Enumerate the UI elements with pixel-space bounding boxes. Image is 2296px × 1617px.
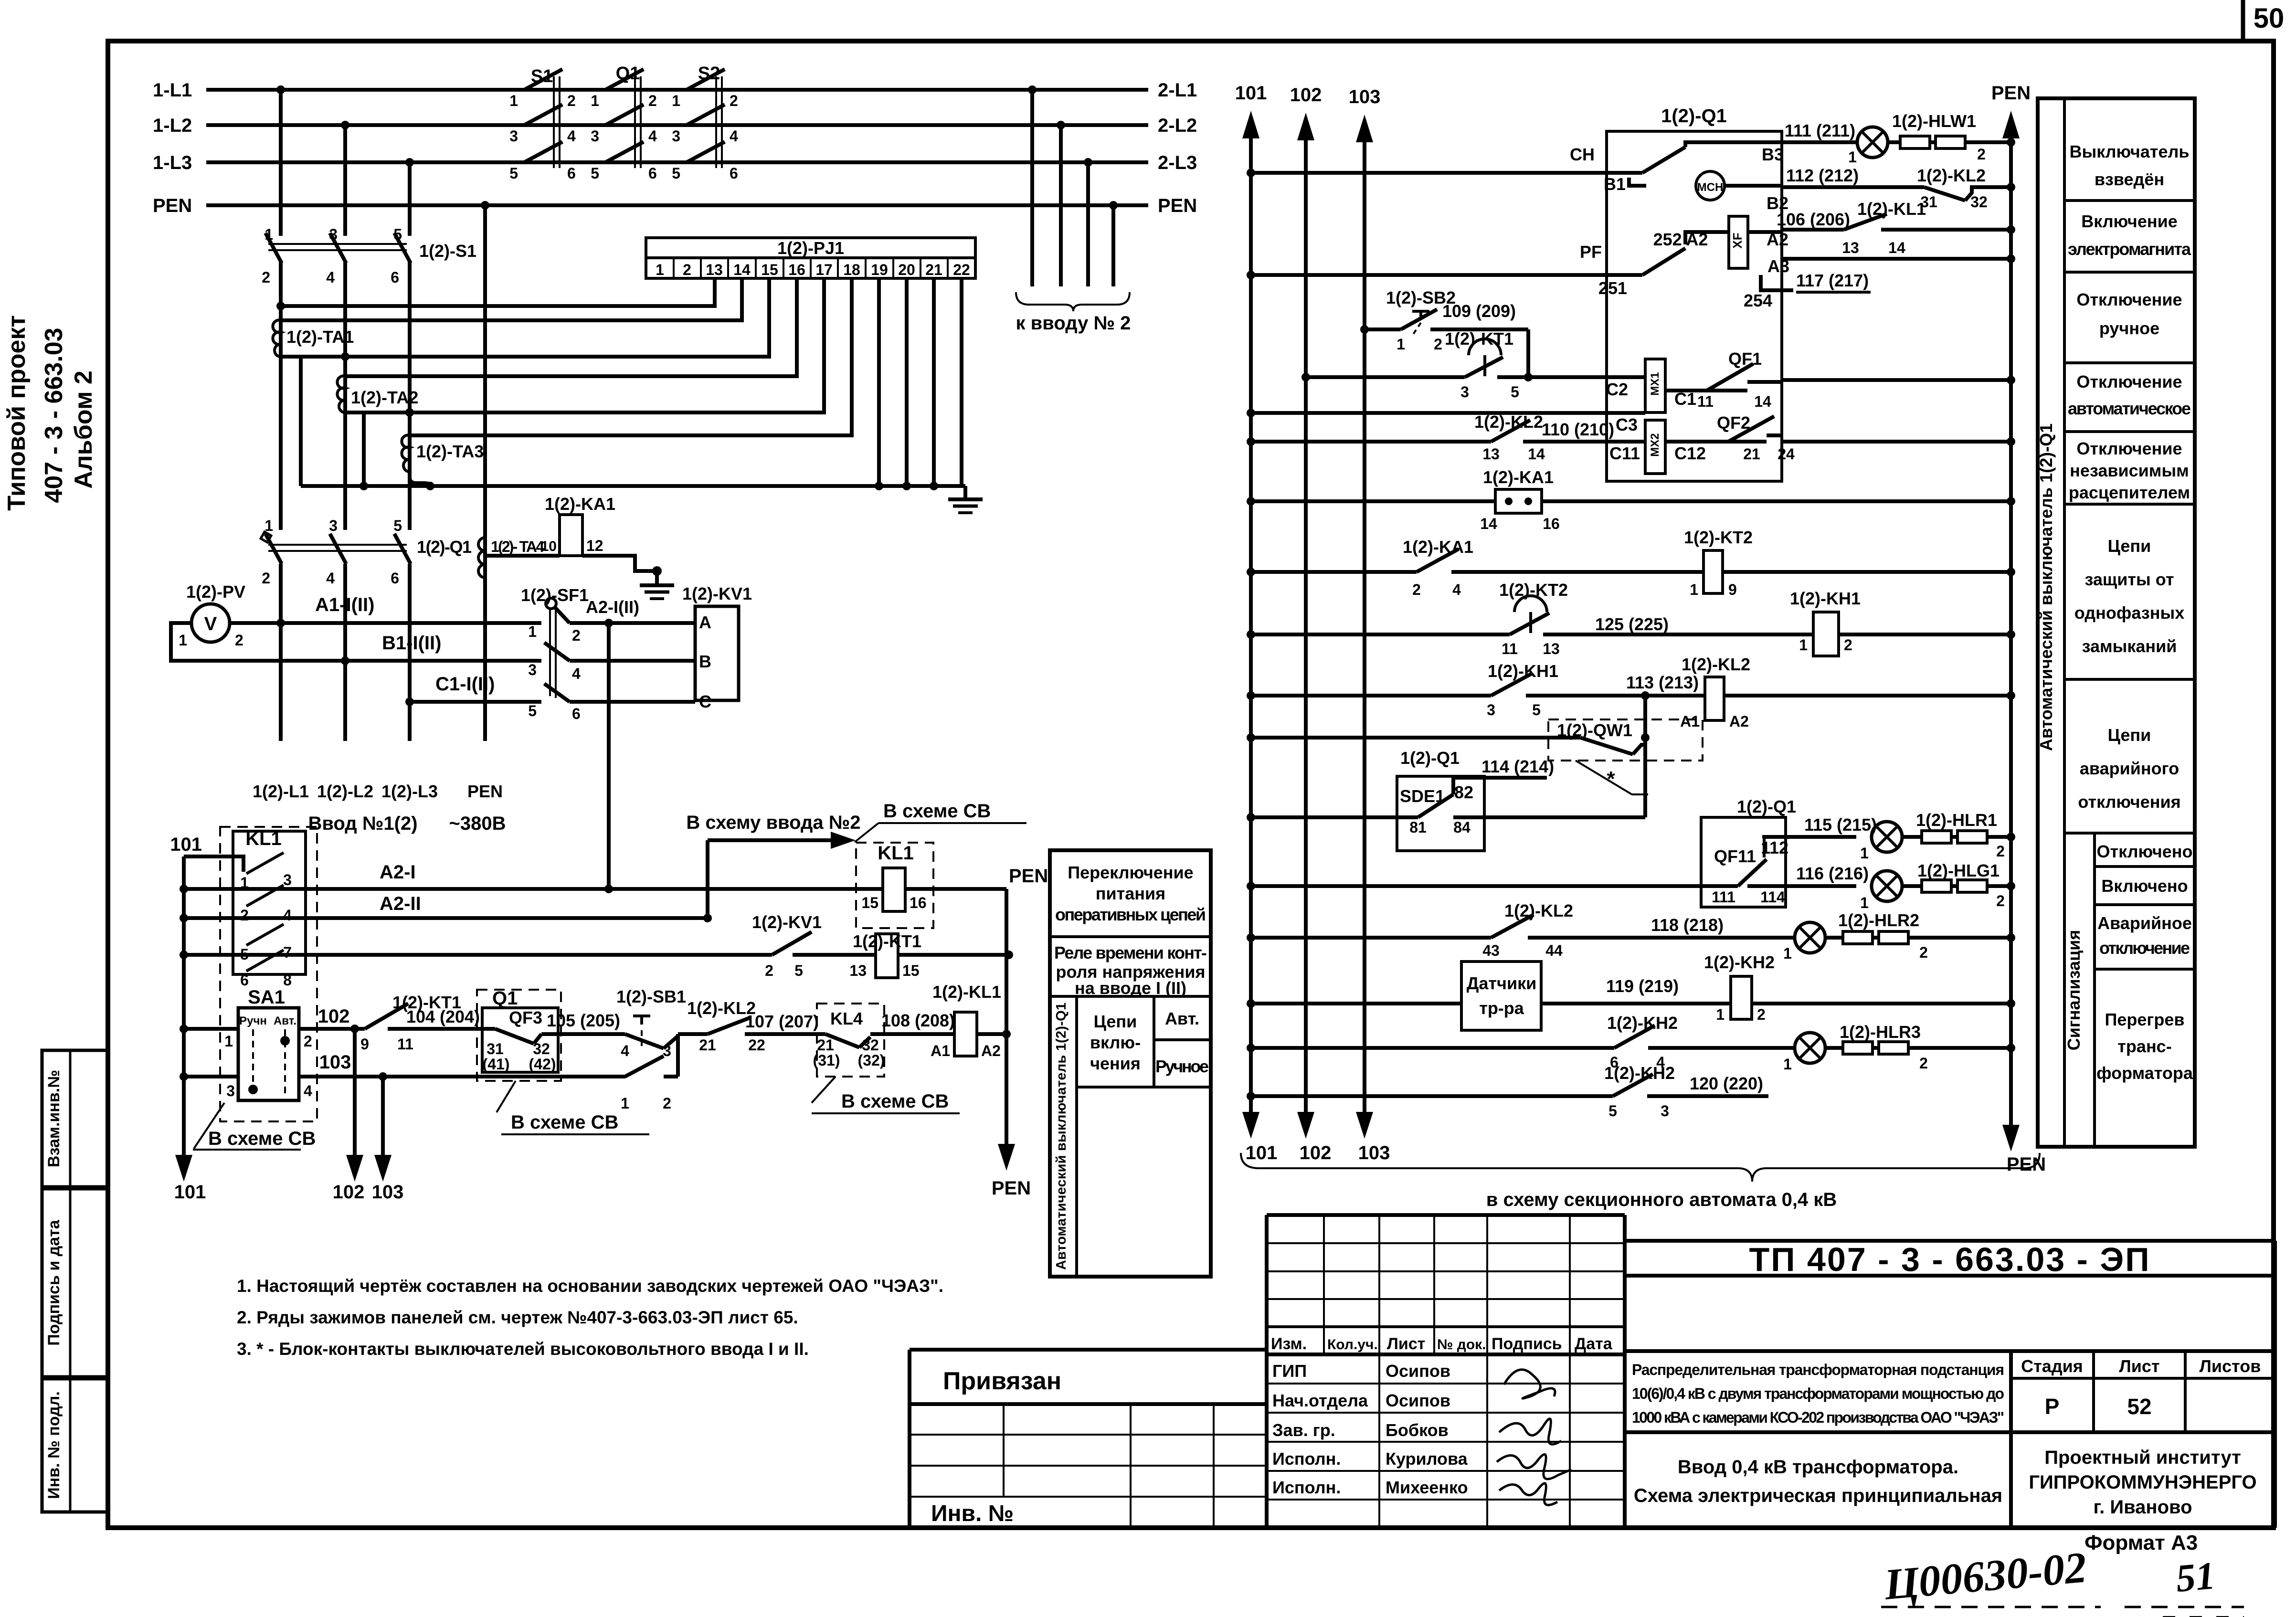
legend cell Авт [1154,1009,1211,1040]
svg-text:Нач.отдела: Нач.отдела [1272,1391,1368,1410]
svg-text:4: 4 [648,127,657,145]
svg-text:1(2)-KH2: 1(2)-KH2 [1704,952,1775,972]
svg-text:SA1: SA1 [248,987,285,1008]
svg-text:1(2)-PJ1: 1(2)-PJ1 [777,238,844,258]
wire TA1 secondary drop [299,357,303,486]
svg-text:6: 6 [567,165,576,182]
svg-text:1: 1 [1783,945,1792,962]
title ТП 407-3-663.03-ЭП [1625,1241,2275,1278]
svg-text:Курилова: Курилова [1386,1449,1468,1469]
contact 1(2)-KA1 [1247,537,1703,598]
wire to input 2 scheme [686,812,860,918]
row Включение электромагнита [2064,211,2195,272]
function table frame [2038,98,2195,1147]
svg-text:14: 14 [1528,445,1545,463]
svg-text:8: 8 [283,972,292,989]
legend box Переключение питания [1050,850,1211,1277]
svg-text:19: 19 [871,261,888,278]
svg-text:1: 1 [591,92,599,109]
svg-text:1(2)-KL2: 1(2)-KL2 [1474,412,1543,432]
svg-text:Отключение: Отключение [2076,290,2182,309]
svg-text:5: 5 [1511,383,1519,401]
svg-text:Реле времени конт-: Реле времени конт- [1054,943,1207,962]
svg-text:6: 6 [572,705,581,722]
svg-text:110 (210): 110 (210) [1542,420,1614,439]
svg-text:102: 102 [333,1182,365,1203]
svg-text:2: 2 [567,92,576,109]
svg-text:2: 2 [262,570,270,587]
svg-text:1(2)-KA1: 1(2)-KA1 [545,494,615,514]
auxiliary contact QF11 1(2)-Q1 [1247,797,1796,907]
svg-text:отключение: отключение [2099,938,2190,958]
wire PJ1-16 to TA2 [345,278,797,376]
rung MCH / 112(212) KL2 contact [1604,166,2015,213]
svg-text:114 (214): 114 (214) [1481,757,1554,776]
svg-text:112 (212): 112 (212) [1786,166,1859,185]
svg-text:Ручн: Ручн [239,1015,267,1027]
relay KA1 measuring [1247,467,2015,532]
row Включено [2095,876,2195,905]
svg-text:1-L2: 1-L2 [153,115,192,136]
wire 102 down arrow [333,1025,365,1203]
svg-text:51: 51 [2174,1554,2217,1600]
svg-text:XF: XF [1730,233,1745,248]
svg-text:20: 20 [898,261,915,278]
svg-text:111: 111 [1712,888,1735,906]
svg-text:Отключение: Отключение [2076,372,2182,391]
legend cell Цепи включения [1077,996,1211,1087]
svg-text:15: 15 [902,962,920,979]
svg-text:13: 13 [1543,640,1560,657]
CT 1(2)-TA3 [402,435,484,472]
rail PEN right [1991,83,2046,1175]
row Отключено [2095,842,2195,867]
wire drop 2-L1 to input 2 [1028,85,1037,286]
wire bus 101 lower-left [180,856,188,1081]
contact 1(2)-KL2 lamp HLR2 rung [1247,901,1795,959]
svg-text:1: 1 [1848,148,1857,166]
svg-text:50: 50 [2254,3,2285,34]
svg-text:1(2)-KL2: 1(2)-KL2 [1917,166,1986,185]
svg-text:A: A [699,613,711,632]
svg-text:1(2)-TA2: 1(2)-TA2 [351,388,418,407]
svg-text:В схему ввода №2: В схему ввода №2 [686,812,860,833]
row Отключение автоматическое [2064,372,2195,432]
svg-text:3: 3 [672,127,680,145]
svg-text:(42): (42) [529,1056,556,1073]
wire drop L3 [405,158,414,530]
svg-text:2. Ряды зажимов панелей см. ч: 2. Ряды зажимов панелей см. чертеж №407-… [237,1308,798,1327]
svg-text:2: 2 [648,92,657,109]
dashed enclosure KL1+SA1 [220,827,317,1121]
svg-text:24: 24 [1778,445,1795,463]
relay KA1 primary [485,494,662,576]
svg-text:Лист: Лист [2119,1356,2159,1376]
wire PJ1-19 to common bus [877,278,881,486]
svg-text:101: 101 [1246,1142,1278,1163]
svg-text:Автоматический выключатель 1(2: Автоматический выключатель 1(2)-Q1 [2036,423,2056,751]
svg-text:(32): (32) [858,1052,885,1069]
project description [1625,1351,2275,1528]
svg-text:102: 102 [1290,85,1322,106]
relay 1(2)-KV1 [682,584,752,711]
svg-text:1(2)-HLW1: 1(2)-HLW1 [1892,111,1976,131]
lamp 1(2)-HLR2 [1783,910,2015,962]
institute name [2029,1447,2256,1518]
svg-text:2: 2 [1919,1055,1928,1072]
svg-text:B1-I(II): B1-I(II) [382,633,441,654]
wire PJ1-14 to TA1 [281,278,742,320]
svg-text:2-L3: 2-L3 [1158,152,1197,173]
svg-text:32: 32 [862,1036,879,1054]
wire C3 row [1247,409,1645,434]
rail 103 [1349,86,1390,1163]
svg-text:6: 6 [730,165,738,182]
CT 1(2)-TA4 [478,538,544,578]
wire TA3 secondary drop [410,472,430,486]
svg-text:PF: PF [1580,242,1602,262]
svg-text:5: 5 [1608,1102,1617,1120]
brace в схему секционного автомата [1241,1153,2040,1210]
svg-text:2: 2 [663,1095,671,1112]
svg-text:101: 101 [174,1182,206,1203]
wire A2-I(II) branch [586,597,639,889]
legend box Реле времени [1050,943,1211,998]
wire A2-II [184,893,712,922]
svg-text:115 (215): 115 (215) [1804,815,1877,835]
svg-text:Альбом 2: Альбом 2 [70,370,97,489]
svg-text:3: 3 [1487,701,1495,719]
svg-text:электромагнита: электромагнита [2068,239,2191,259]
bus PEN [153,195,1148,216]
relay contacts KL1 [233,828,306,989]
svg-text:16: 16 [910,894,927,911]
wire KV1 row [184,953,772,957]
svg-text:6: 6 [391,570,399,587]
svg-text:однофазных: однофазных [2074,603,2184,623]
svg-text:4: 4 [1452,581,1461,598]
svg-text:15: 15 [761,261,778,278]
svg-text:4: 4 [304,1082,312,1099]
svg-text:Осипов: Осипов [1386,1391,1450,1410]
strip Сигнализация [2064,833,2095,1147]
svg-text:109 (209): 109 (209) [1442,301,1516,321]
svg-text:QF3: QF3 [509,1008,542,1027]
svg-text:1(2)-HLR1: 1(2)-HLR1 [1916,810,1997,830]
svg-text:C12: C12 [1674,444,1706,463]
box Датчики тр-ра [1247,962,1731,1030]
note В схеме СВ at KL4 [812,1077,960,1113]
svg-text:1(2)-Q1: 1(2)-Q1 [1737,797,1796,816]
relay coil 1(2)-KT2 [1684,528,2015,598]
svg-text:в схему секционного автомата 0: в схему секционного автомата 0,4 кВ [1486,1189,1837,1210]
svg-text:113 (213): 113 (213) [1626,673,1699,692]
wire drop 2-L2 to input 2 [1057,121,1065,286]
svg-text:PEN: PEN [467,782,503,801]
wire to KL1 pin1 [184,856,243,872]
svg-text:3: 3 [1661,1102,1669,1120]
svg-text:QF1: QF1 [1728,349,1762,369]
svg-text:Зав. гр.: Зав. гр. [1272,1420,1335,1440]
svg-text:11: 11 [1697,393,1714,410]
svg-text:(31): (31) [813,1052,840,1069]
svg-text:Авт.: Авт. [274,1015,296,1027]
svg-text:питания: питания [1096,884,1165,903]
handwritten inventory number [1881,1543,2244,1617]
svg-text:МСН: МСН [1697,181,1724,194]
svg-text:Подпись: Подпись [1492,1335,1562,1353]
sheet number box 50 [2243,0,2284,41]
svg-text:*: * [1607,767,1615,791]
svg-text:A2-II: A2-II [380,893,421,914]
svg-text:101: 101 [1235,83,1267,104]
svg-text:Авт.: Авт. [1165,1009,1199,1028]
svg-text:транс-: транс- [2117,1036,2171,1056]
svg-text:форматора: форматора [2096,1063,2193,1083]
svg-text:5: 5 [528,702,537,719]
wire drop L1 [276,85,285,530]
svg-text:CH: CH [1570,145,1595,164]
svg-text:3: 3 [1460,383,1469,401]
relay coil 1(2)-KH1 [1790,589,2015,656]
svg-text:32: 32 [533,1040,550,1057]
svg-text:автоматическое: автоматическое [2068,399,2191,418]
svg-text:4: 4 [283,907,292,924]
svg-text:2: 2 [765,962,773,979]
svg-text:PEN: PEN [992,1178,1031,1199]
svg-text:ГИПРОКОММУНЭНЕРГО: ГИПРОКОММУНЭНЕРГО [2029,1472,2256,1493]
svg-text:1(2)-KA1: 1(2)-KA1 [1483,467,1554,487]
bus 1-L3 [153,152,1148,173]
svg-text:Цепи: Цепи [2108,725,2151,745]
svg-text:оперативных цепей: оперативных цепей [1055,905,1206,924]
svg-text:103: 103 [1358,1142,1390,1163]
svg-text:1: 1 [1783,1056,1792,1073]
wire PJ1-13 to L1 tap [276,278,715,310]
svg-text:2: 2 [1996,892,2005,909]
svg-text:C11: C11 [1609,444,1640,463]
contact QF3 [477,1008,621,1073]
svg-text:107 (207): 107 (207) [745,1012,819,1031]
svg-text:1(2)-TA1: 1(2)-TA1 [286,327,354,347]
svg-text:Привязан: Привязан [943,1367,1061,1395]
note 3 [237,1339,809,1359]
svg-text:1. Настоящий чертёж составлен: 1. Настоящий чертёж составлен на основан… [237,1276,943,1296]
svg-text:C: C [699,692,711,711]
svg-text:120 (220): 120 (220) [1690,1074,1763,1093]
svg-text:Михеенко: Михеенко [1386,1478,1468,1497]
CT 1(2)-TA1 [273,320,354,357]
dashed box KL4 [813,1004,955,1077]
svg-text:81: 81 [1409,819,1427,836]
svg-text:Листов: Листов [2200,1356,2261,1376]
svg-text:3: 3 [226,1082,235,1099]
svg-text:17: 17 [815,261,833,278]
svg-text:чения: чения [1090,1054,1141,1073]
svg-text:16: 16 [1543,515,1560,532]
svg-text:16: 16 [788,261,805,278]
svg-text:PEN: PEN [153,195,192,216]
svg-text:1(2)-KA1: 1(2)-KA1 [1403,537,1473,557]
svg-text:Формат А3: Формат А3 [2084,1531,2198,1554]
svg-text:1(2)-KH2: 1(2)-KH2 [1607,1013,1678,1033]
svg-text:3: 3 [509,127,518,145]
svg-text:Типовой проект: Типовой проект [3,315,31,511]
svg-text:105 (205): 105 (205) [547,1011,620,1030]
dashed box Q1 [477,988,561,1081]
svg-text:10: 10 [541,539,557,554]
svg-text:1: 1 [528,623,537,640]
svg-text:Отключено: Отключено [2097,842,2193,861]
svg-text:KL1: KL1 [878,843,914,864]
svg-text:A2: A2 [1729,713,1749,730]
svg-text:106 (206): 106 (206) [1777,210,1850,229]
svg-text:21: 21 [925,261,942,278]
svg-text:B3: B3 [1762,145,1784,164]
wire PJ1-20 to common bus [905,278,909,486]
svg-text:2: 2 [235,632,243,649]
svg-text:A2: A2 [981,1042,1001,1059]
svg-text:82: 82 [1454,782,1473,802]
svg-text:V: V [204,613,217,634]
cell Инв № [931,1501,1014,1526]
wire A2-I [184,862,856,893]
svg-text:4: 4 [621,1042,629,1059]
row Аварийное отключение [2095,913,2195,969]
svg-text:14: 14 [1754,393,1771,410]
svg-text:1: 1 [1397,336,1405,353]
wire 103 row [184,1052,625,1081]
svg-text:ручное: ручное [2099,318,2159,338]
svg-text:C3: C3 [1616,415,1638,434]
svg-text:1: 1 [1716,1006,1725,1023]
svg-text:Включение: Включение [2081,211,2178,231]
row Отключение ручное [2064,290,2195,363]
svg-text:9: 9 [360,1036,369,1053]
button 1(2)-SB1 [616,987,708,1059]
relay coil 1(2)-KH2 [1704,952,2015,1023]
svg-text:117 (217): 117 (217) [1796,271,1869,290]
button SB1 lower contact [621,1034,678,1112]
CT common bus [301,482,965,490]
svg-text:4: 4 [567,127,576,145]
svg-text:21: 21 [817,1036,834,1054]
strip Автоматический выключатель 1(2)-Q1 [2036,423,2056,751]
svg-text:1(2)-KL2: 1(2)-KL2 [1504,901,1573,920]
svg-text:2: 2 [240,907,249,924]
svg-text:2: 2 [304,1033,312,1050]
svg-text:взведён: взведён [2095,169,2164,189]
svg-text:3. * - Блок-контакты выключате: 3. * - Блок-контакты выключателей высоко… [237,1339,809,1359]
svg-text:MX1: MX1 [1649,372,1661,395]
svg-text:1(2)-Q1: 1(2)-Q1 [417,537,472,557]
svg-text:A2-I: A2-I [380,862,416,883]
wire drop PEN [481,201,489,741]
svg-text:1(2)-KL2: 1(2)-KL2 [1682,655,1750,674]
note 2 [237,1308,798,1327]
rung PF / XF / 106(206) KL1 contact [1247,199,2015,298]
stamp: Типовой проект [3,315,31,511]
svg-text:Схема электрическая принципиал: Схема электрическая принципиальная [1634,1485,2002,1506]
contact 1(2)-QW1 [1247,696,1703,817]
svg-text:PEN: PEN [1158,195,1197,216]
svg-text:118 (218): 118 (218) [1651,915,1724,935]
svg-text:B1: B1 [1604,174,1626,194]
left margin boxes [42,1050,108,1512]
signature rows [1267,1354,1625,1528]
wire drop L2 [341,121,349,530]
svg-text:5: 5 [591,165,599,182]
lower-left grid [910,1404,1267,1528]
svg-text:4: 4 [730,127,738,145]
svg-text:1(2)-SB1: 1(2)-SB1 [616,987,686,1006]
wire phase B row [171,623,541,665]
svg-text:A2-I(II): A2-I(II) [586,597,639,617]
svg-text:4: 4 [326,269,335,286]
svg-text:125 (225): 125 (225) [1595,614,1669,634]
bus 1-L1 [153,80,1148,101]
svg-text:Аварийное: Аварийное [2097,913,2192,933]
rail 102 [1290,85,1332,1163]
contact QF1 [1694,349,2015,410]
svg-text:2: 2 [1919,944,1928,961]
node labels input 1 [253,782,506,834]
svg-text:103: 103 [372,1182,404,1203]
svg-text:108 (208): 108 (208) [881,1011,955,1030]
svg-text:1(2)-HLR2: 1(2)-HLR2 [1838,910,1919,930]
svg-text:ГИП: ГИП [1272,1361,1307,1381]
svg-text:5: 5 [393,517,402,534]
svg-text:44: 44 [1545,942,1563,959]
svg-text:ТП 407 - 3 - 663.03 - ЭП: ТП 407 - 3 - 663.03 - ЭП [1749,1241,2150,1278]
svg-text:Перегрев: Перегрев [2105,1010,2184,1029]
svg-text:104 (204): 104 (204) [406,1007,480,1026]
svg-text:Ручное: Ручное [1155,1057,1209,1076]
svg-text:119 (219): 119 (219) [1606,976,1679,996]
svg-text:Распределительная трансформато: Распределительная трансформаторная подст… [1632,1361,2004,1378]
svg-text:102: 102 [318,1006,350,1027]
title block frame [910,1215,2275,1528]
svg-text:1: 1 [656,261,664,278]
svg-text:3: 3 [528,661,537,678]
breaker unit box 1(2)-Q1 right [1607,106,1782,481]
svg-text:г. Иваново: г. Иваново [2093,1497,2192,1518]
svg-text:1(2)-KT2: 1(2)-KT2 [1684,528,1753,547]
svg-text:11: 11 [397,1036,413,1053]
svg-text:32: 32 [1970,193,1988,211]
svg-text:5: 5 [794,962,803,979]
svg-text:вклю-: вклю- [1090,1033,1141,1052]
bus 1-L2 [153,115,1148,136]
stamp: 407 - 3 - 663.03 [40,328,68,503]
svg-text:2: 2 [262,269,270,286]
contact QF2 [1717,413,2015,463]
CT 1(2)-TA2 [337,376,418,412]
svg-text:Переключение: Переключение [1068,863,1193,882]
svg-text:18: 18 [843,261,860,278]
svg-text:Цепи: Цепи [1094,1012,1137,1031]
svg-text:MX2: MX2 [1649,433,1661,456]
svg-text:Цепи: Цепи [2108,536,2151,556]
svg-text:1: 1 [509,92,518,109]
wire drop 2-L3 to input 2 [1084,158,1092,286]
svg-text:(41): (41) [483,1056,510,1073]
svg-text:3: 3 [283,871,292,888]
svg-text:Лист: Лист [1387,1335,1425,1353]
wire TA2 secondary drop [362,412,366,486]
svg-text:103: 103 [319,1052,351,1073]
contact 1(2)-KH2 lamp HLR3 rung [1247,1013,1795,1071]
